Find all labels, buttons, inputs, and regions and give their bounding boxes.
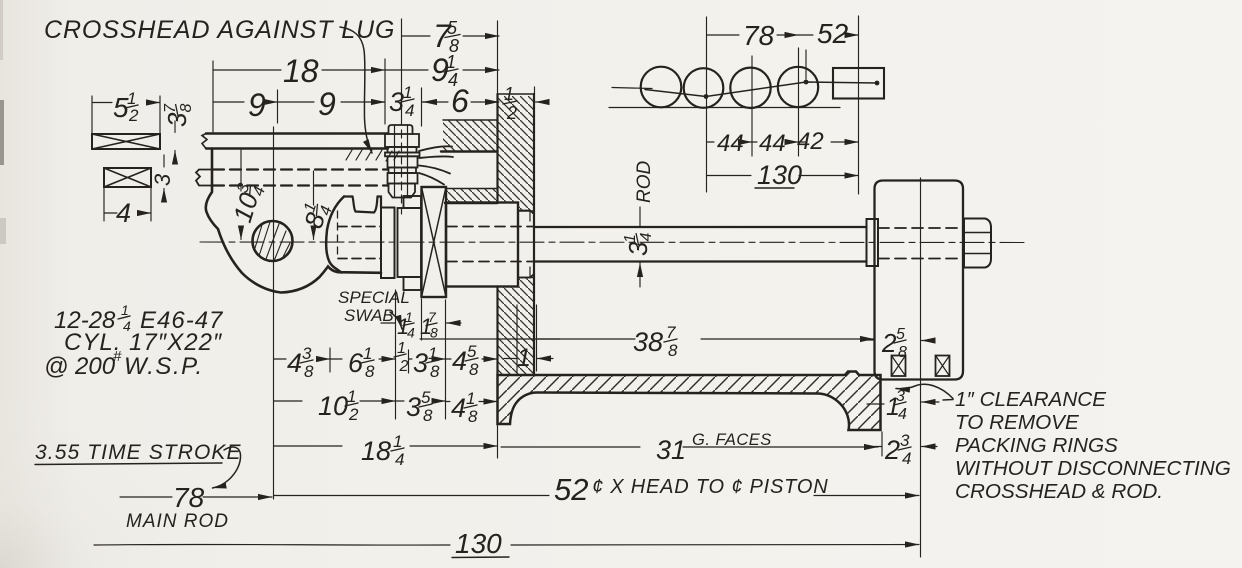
svg-text:4: 4	[898, 406, 907, 423]
piston centerline long	[920, 178, 922, 557]
tick at 1.75 dim	[879, 390, 881, 416]
circle 2	[684, 68, 724, 108]
svg-text:10: 10	[318, 391, 348, 421]
circle 3	[730, 68, 770, 108]
svg-text:3: 3	[302, 344, 312, 363]
svg-text:@ 200: @ 200	[44, 353, 116, 380]
bottom bar left stub	[196, 170, 211, 186]
svg-text:5: 5	[896, 326, 905, 343]
svg-text:8: 8	[365, 362, 375, 381]
ext x517 one-dim	[516, 305, 518, 373]
bolt nut layer2	[385, 134, 419, 147]
svg-text:8: 8	[423, 406, 433, 425]
dim 52 xhead line	[274, 495, 919, 497]
svg-text:78: 78	[173, 482, 205, 513]
svg-text:#: #	[113, 348, 122, 365]
packing ring box left	[892, 356, 906, 377]
leader 1inch clearance	[896, 384, 953, 398]
dim text 10 3/4 rotated	[226, 180, 269, 226]
dim 4.125	[446, 401, 498, 403]
dim 78 main rod line	[120, 496, 172, 498]
svg-text:4: 4	[405, 101, 414, 120]
crosshead neck right profile	[326, 197, 344, 273]
hatch ticks under bar at lug contact	[346, 150, 399, 161]
svg-text:9: 9	[318, 86, 336, 122]
swab groove lips	[344, 197, 381, 208]
ext x536.5	[536, 305, 538, 371]
svg-text:8: 8	[178, 104, 195, 113]
dim 7.625	[402, 35, 500, 37]
svg-text:TO REMOVE: TO REMOVE	[955, 411, 1079, 434]
svg-text:6: 6	[348, 348, 364, 378]
G17: guide beam	[498, 372, 881, 431]
ext 3.25/6 junction	[421, 88, 423, 126]
svg-text:1: 1	[121, 302, 129, 318]
svg-text:MAIN ROD: MAIN ROD	[126, 511, 229, 532]
ext x706.5 cranks	[706, 17, 708, 192]
leader special swab	[390, 312, 402, 329]
dimension lines group	[92, 35, 939, 545]
svg-text:1: 1	[428, 344, 437, 363]
wall left face	[496, 94, 498, 375]
dim 4.375	[274, 358, 331, 360]
svg-text:1: 1	[403, 83, 412, 102]
svg-text:3: 3	[406, 392, 421, 422]
svg-text:7: 7	[666, 323, 676, 342]
bolt cap	[389, 125, 413, 134]
svg-text:31: 31	[656, 435, 686, 465]
neck chamfer verticals	[529, 211, 531, 278]
svg-text:18: 18	[283, 53, 319, 89]
svg-text:1: 1	[393, 432, 402, 451]
svg-text:2: 2	[128, 106, 139, 125]
svg-text:130: 130	[757, 160, 802, 190]
svg-text:3.55 TIME STROKE: 3.55 TIME STROKE	[35, 441, 242, 464]
dim text 8 1/4 rotated	[297, 199, 336, 232]
wall top edge	[498, 93, 535, 95]
svg-text:CROSSHEAD & ROD.: CROSSHEAD & ROD.	[955, 480, 1163, 503]
boss hidden lines	[338, 227, 381, 259]
sleeve neck through wall	[518, 211, 534, 278]
dim 9.25	[385, 69, 499, 71]
svg-text:4: 4	[116, 198, 131, 228]
svg-text:2: 2	[881, 328, 897, 358]
svg-text:CYL. 17″X22″: CYL. 17″X22″	[64, 329, 223, 356]
svg-text:WITHOUT DISCONNECTING: WITHOUT DISCONNECTING	[955, 457, 1231, 480]
wrist pin hole	[253, 221, 293, 261]
G6: lug hatched band upper	[441, 120, 498, 152]
svg-text:3: 3	[150, 173, 175, 186]
top guide bar section box 5.5x3.875	[92, 134, 160, 149]
svg-text:18: 18	[361, 436, 391, 466]
svg-text:1″ CLEARANCE: 1″ CLEARANCE	[955, 388, 1106, 411]
top bar left break	[202, 134, 207, 149]
packing ring box right	[936, 356, 950, 377]
dim text 3 7/8 rotated	[162, 103, 195, 127]
svg-text:1: 1	[363, 344, 372, 363]
G2: guide bars	[196, 134, 399, 186]
ext x806 crank pin	[805, 50, 807, 79]
svg-text:8: 8	[430, 325, 438, 341]
svg-text:2: 2	[506, 103, 517, 123]
svg-text:1: 1	[347, 387, 356, 406]
paper corner shading	[0, 100, 4, 165]
bottom guide bar section box 4x3	[104, 168, 151, 187]
ext x445	[445, 300, 447, 419]
bolt washer layer6	[389, 168, 417, 174]
pin dot c4	[804, 80, 809, 85]
svg-text:5: 5	[421, 388, 431, 407]
ext x858.5 block	[858, 16, 860, 194]
dim 130 bottom line	[94, 543, 450, 546]
X of bottom box	[104, 168, 151, 187]
svg-text:9: 9	[248, 87, 266, 123]
svg-text:42: 42	[797, 128, 824, 155]
ext x330 row359	[329, 348, 331, 372]
bolt bottom nut	[389, 184, 416, 198]
fraction bars group uses thin strokes	[35, 35, 911, 558]
ext x408.5	[408, 350, 410, 373]
dim 1 wall arrows	[504, 358, 553, 360]
svg-text:G. FACES: G. FACES	[692, 431, 772, 449]
dim 4.625	[446, 358, 498, 360]
ext above wall left	[497, 21, 499, 94]
crosshead outline	[206, 149, 381, 293]
dim 31 g-faces	[501, 446, 878, 448]
ext below wall left	[497, 424, 499, 458]
svg-text:6: 6	[451, 83, 469, 119]
svg-text:8: 8	[898, 344, 907, 361]
wall bore edges	[518, 211, 534, 278]
dim 3 vertical arrows	[163, 155, 165, 200]
svg-text:ROD: ROD	[634, 161, 655, 204]
svg-text:3: 3	[389, 87, 404, 117]
dim 42	[799, 141, 859, 143]
bolt layer5	[388, 156, 418, 167]
svg-text:38: 38	[633, 327, 663, 357]
G10: packing box with X	[422, 187, 447, 297]
svg-text:W.S.P.: W.S.P.	[124, 353, 204, 380]
G13: piston rod	[534, 219, 963, 266]
dim 78 crank	[707, 34, 799, 36]
ext x798.5 crank c4	[798, 48, 800, 156]
dim 5.5	[92, 102, 160, 104]
G5: swab spring fingers	[419, 146, 453, 184]
ext 9/9 junction	[277, 90, 279, 123]
rod label rotated	[634, 161, 655, 204]
svg-text:4: 4	[452, 346, 467, 376]
dim 3.25 arrows outside	[371, 101, 436, 103]
dim 3.125	[409, 358, 446, 360]
G14: rod centerline	[200, 241, 1025, 244]
dim 0.5 top arrows outside	[486, 101, 548, 103]
G9: gland follower spool	[398, 196, 422, 290]
bottom guide bar hidden	[213, 170, 388, 186]
dim 10.5	[274, 400, 396, 402]
svg-text:5: 5	[447, 18, 458, 38]
extension lines group	[92, 16, 921, 557]
svg-text:8: 8	[430, 362, 440, 381]
dim 6	[422, 101, 500, 103]
svg-text:1: 1	[517, 344, 531, 372]
swab groove	[353, 197, 378, 213]
dash before 1 clearance	[943, 399, 953, 402]
dim 2.75 arrows	[866, 446, 937, 448]
X of top box	[92, 134, 160, 149]
rod collar	[867, 219, 879, 266]
ext 5.5 dim	[92, 96, 160, 133]
svg-text:78: 78	[743, 20, 775, 51]
dim text 3 rotated	[150, 173, 175, 186]
top guide bar	[206, 134, 388, 149]
leader 3.55 stroke hook	[213, 447, 241, 488]
svg-text:4: 4	[395, 450, 404, 469]
svg-text:SWAB: SWAB	[344, 306, 394, 325]
bolt shank inner lines	[395, 125, 408, 197]
G18: crank circles diagram	[609, 67, 884, 108]
dim 3.625	[396, 400, 446, 402]
svg-text:5: 5	[467, 342, 477, 361]
svg-text:3: 3	[413, 348, 428, 378]
ext 4 dim	[104, 188, 151, 221]
G12: cylinder head wall	[498, 94, 535, 375]
dim 8.25 vertical	[313, 171, 315, 240]
svg-text:4: 4	[407, 325, 415, 341]
svg-text:¢ X HEAD TO ¢ PISTON: ¢ X HEAD TO ¢ PISTON	[592, 476, 828, 498]
tangent line under circles	[609, 107, 840, 109]
G1: left section boxes	[92, 134, 160, 187]
ext 18 left	[212, 61, 214, 132]
dim 6.125	[330, 358, 396, 360]
dim 18	[213, 69, 385, 71]
svg-text:52: 52	[817, 18, 849, 49]
boss hidden vertical	[337, 211, 339, 258]
svg-text:8: 8	[468, 407, 478, 426]
dim 9 first	[213, 101, 278, 103]
svg-text:3: 3	[900, 431, 910, 450]
dim rod 3.25 label arrows	[639, 207, 641, 287]
svg-text:8: 8	[469, 360, 479, 379]
svg-text:1: 1	[446, 52, 456, 72]
dim 9 second	[278, 101, 386, 103]
svg-text:1: 1	[504, 84, 514, 104]
dim 10.75 vertical	[240, 150, 242, 240]
pin dot c2	[704, 94, 709, 99]
svg-text:1: 1	[466, 389, 475, 408]
svg-text:8: 8	[304, 362, 314, 381]
dim 18.25	[274, 445, 498, 447]
circle 1	[641, 67, 682, 108]
svg-text:SPECIAL: SPECIAL	[338, 288, 410, 307]
connecting rod slant line	[645, 82, 877, 97]
lead-in line	[612, 88, 652, 89]
svg-text:2: 2	[884, 435, 900, 465]
svg-text:4: 4	[902, 449, 911, 468]
svg-text:CROSSHEAD AGAINST LUG: CROSSHEAD AGAINST LUG	[44, 16, 395, 44]
svg-text:4: 4	[638, 233, 655, 242]
G11: gland sleeve	[446, 203, 534, 287]
G16: piston rod nut	[964, 219, 991, 268]
svg-text:2: 2	[399, 358, 409, 375]
svg-text:7: 7	[428, 309, 437, 325]
bolt clamp layer4	[385, 153, 420, 157]
G7: lug hatched band lower	[445, 189, 498, 204]
slide block rectangle	[833, 68, 884, 99]
G15: piston boss	[875, 181, 964, 380]
svg-text:4: 4	[451, 393, 466, 423]
dim 1.25/1.875 swab arrows	[381, 322, 461, 324]
dim 3.875 vertical arrows	[174, 121, 176, 162]
svg-text:1: 1	[397, 340, 406, 357]
ext x421.5 below packing	[421, 299, 423, 340]
dim 1.75 arrows	[867, 402, 939, 404]
svg-text:2: 2	[348, 405, 359, 424]
leaders group	[213, 27, 954, 488]
bolt centerline dashed	[401, 117, 403, 214]
G3: crosshead body	[206, 149, 381, 293]
hidden rod in sleeve	[447, 227, 533, 262]
svg-text:8: 8	[668, 341, 678, 360]
ext x752 crank c3	[751, 56, 753, 156]
G8: gland flange plate	[381, 208, 395, 279]
dim 44 second	[752, 141, 799, 143]
svg-text:52: 52	[554, 472, 588, 507]
circle 4	[778, 67, 818, 107]
ext x395.5 swab/rows	[395, 290, 397, 419]
wall right face	[533, 94, 535, 375]
pin dot block	[875, 81, 880, 86]
ext wall right top	[534, 87, 536, 94]
svg-text:44: 44	[717, 130, 744, 157]
svg-text:1: 1	[405, 309, 413, 325]
dim 44 first	[707, 141, 753, 143]
dim 52 crank	[799, 34, 859, 36]
svg-text:4: 4	[287, 348, 302, 378]
rod hidden in piston	[878, 228, 963, 259]
svg-text:44: 44	[759, 130, 786, 157]
bolt layer7	[388, 173, 418, 184]
G4: lug bolt stack	[385, 125, 420, 198]
bolt washer layer3	[388, 147, 417, 153]
wrist pin hatch	[255, 222, 290, 261]
ext 7.625 left	[401, 19, 403, 117]
wrist pin vertical centerline	[273, 127, 275, 499]
dim 38.875 line	[538, 338, 875, 340]
dim 2.625 arrows	[861, 339, 934, 342]
leader crosshead-against-lug	[340, 27, 372, 153]
dim 4	[104, 212, 151, 214]
ext x882 guide foot	[881, 432, 883, 456]
svg-text:130: 130	[455, 528, 502, 559]
dim 130 crank	[707, 175, 859, 177]
ext 18/9.25 junction	[384, 59, 386, 124]
svg-text:3: 3	[896, 388, 905, 405]
svg-text:PACKING RINGS: PACKING RINGS	[955, 434, 1118, 457]
